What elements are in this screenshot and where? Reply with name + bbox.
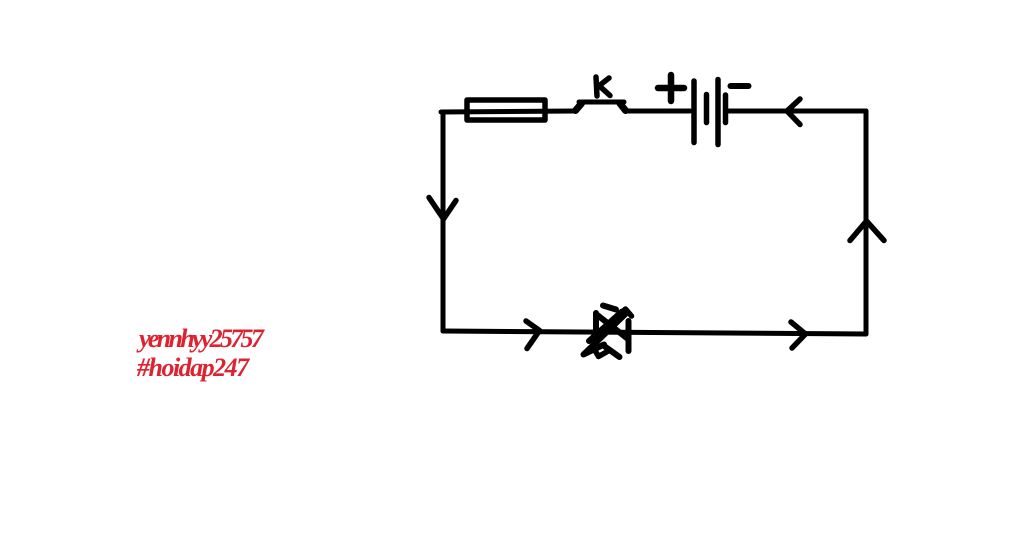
label K [596, 77, 610, 96]
current arrow left-pointing on top wire [787, 99, 800, 125]
fuse R (box with line through) [467, 100, 545, 120]
current arrow down-pointing on left wire [429, 198, 456, 220]
watermark handle yennhyy25757 [139, 324, 261, 354]
wire switch to battery [628, 109, 690, 114]
battery cell plate long 1 [691, 81, 697, 143]
wire battery to top-right corner [726, 109, 866, 114]
current arrow up-pointing on right wire [850, 221, 884, 241]
wire right side [864, 111, 869, 334]
wire top side (passes through fuse box) [441, 111, 574, 112]
battery plus label [658, 75, 684, 101]
battery cell plate short 1 [704, 95, 710, 123]
current arrow right-pointing on bottom wire (left segment) [526, 321, 540, 349]
watermark hashtag #hoidap247 [137, 353, 248, 383]
wire bottom side [443, 331, 866, 334]
switch K contact bump [576, 102, 626, 111]
lamp symbol scribbled (crossed box with arrows) [584, 306, 632, 358]
battery cell plate short 2 [723, 95, 729, 123]
current arrow right-pointing on bottom wire (right segment) [791, 322, 806, 348]
battery minus label [731, 83, 749, 89]
battery cell plate long 2 [715, 80, 721, 145]
wire left side [441, 112, 446, 331]
